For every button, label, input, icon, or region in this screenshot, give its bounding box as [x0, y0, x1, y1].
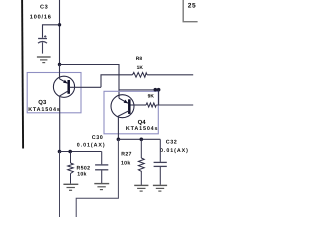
svg-text:C3: C3	[40, 5, 48, 11]
node: emitter rail junction	[58, 63, 61, 66]
svg-text:R8: R8	[136, 56, 143, 62]
collector lead	[60, 91, 69, 152]
svg-text:R27: R27	[121, 151, 131, 157]
svg-text:25: 25	[188, 2, 196, 9]
wire: collector row to R27 and C32	[118, 138, 160, 140]
transistor Q3 KTA1504 (PNP)	[53, 65, 101, 152]
resistor 9K zigzag on Q4 base	[146, 103, 156, 107]
wire: Q3 base up to R8 line	[101, 75, 133, 88]
resistor R8 (1K) zigzag	[133, 72, 148, 77]
Q3 component box	[27, 73, 81, 113]
svg-text:C32: C32	[166, 139, 178, 145]
svg-text:100/16: 100/16	[30, 14, 52, 21]
svg-text:C30: C30	[92, 135, 104, 141]
ground (C30)	[94, 184, 109, 190]
capacitor C32	[154, 139, 167, 185]
ground (R502)	[63, 184, 78, 190]
resistor R27 (10k)	[140, 139, 142, 158]
svg-text:0.01(AX): 0.01(AX)	[77, 142, 106, 148]
wire: R8 to right edge stub	[147, 74, 193, 76]
node: junction of C3 branch on rail	[58, 23, 61, 26]
ground (R27)	[134, 185, 148, 191]
wire: base net stub to right	[156, 104, 193, 106]
wire: Q3 collector node row	[58, 150, 62, 154]
resistor R502 (10k)	[70, 152, 72, 164]
ground (C3)	[37, 57, 51, 63]
sheet border line (left vertical black bar)	[22, 0, 23, 149]
ground (C32)	[153, 185, 167, 191]
wire: branch to C3	[43, 25, 60, 38]
base lead	[70, 86, 101, 88]
node: R502 tap	[68, 150, 72, 154]
base bar	[67, 80, 70, 94]
wire: collector continues to bottom edge	[59, 152, 61, 218]
Q4 component box	[104, 91, 158, 134]
svg-text:10k: 10k	[121, 160, 131, 166]
collector lead	[118, 111, 129, 140]
transistor Q4 KTA1504 (PNP)	[111, 95, 146, 140]
node: Q4 collector junction	[117, 138, 121, 142]
wire: emitter pull-up wire along box top	[119, 89, 159, 91]
wire: down from dots to base line	[158, 90, 160, 105]
svg-text:1K: 1K	[137, 65, 144, 71]
node: double junction dots	[154, 88, 158, 92]
svg-text:10k: 10k	[77, 172, 87, 178]
wire: main supply rail from top edge down	[59, 0, 61, 65]
emitter arrow (PNP)	[63, 80, 67, 84]
svg-text:Q4: Q4	[138, 119, 147, 126]
svg-text:0.01(AX): 0.01(AX)	[160, 148, 189, 154]
emitter arrow (PNP)	[124, 100, 128, 104]
emitter lead into circle	[59, 65, 61, 79]
wire: emitter rail to Q4	[60, 65, 120, 99]
node: R27 tap	[140, 138, 144, 142]
svg-text:KTA1504s: KTA1504s	[28, 107, 60, 113]
svg-text:KTA1504s: KTA1504s	[126, 126, 158, 132]
svg-text:9K: 9K	[148, 94, 155, 100]
connector box top right with pin 25	[183, 0, 197, 22]
base lead	[131, 104, 147, 106]
wire: Q4 collector down and across to bottom edge	[76, 139, 118, 217]
svg-text:Q3: Q3	[38, 99, 47, 106]
base bar	[128, 99, 131, 114]
capacitor C3 (polarized)	[38, 35, 47, 53]
capacitor C30	[95, 152, 108, 184]
